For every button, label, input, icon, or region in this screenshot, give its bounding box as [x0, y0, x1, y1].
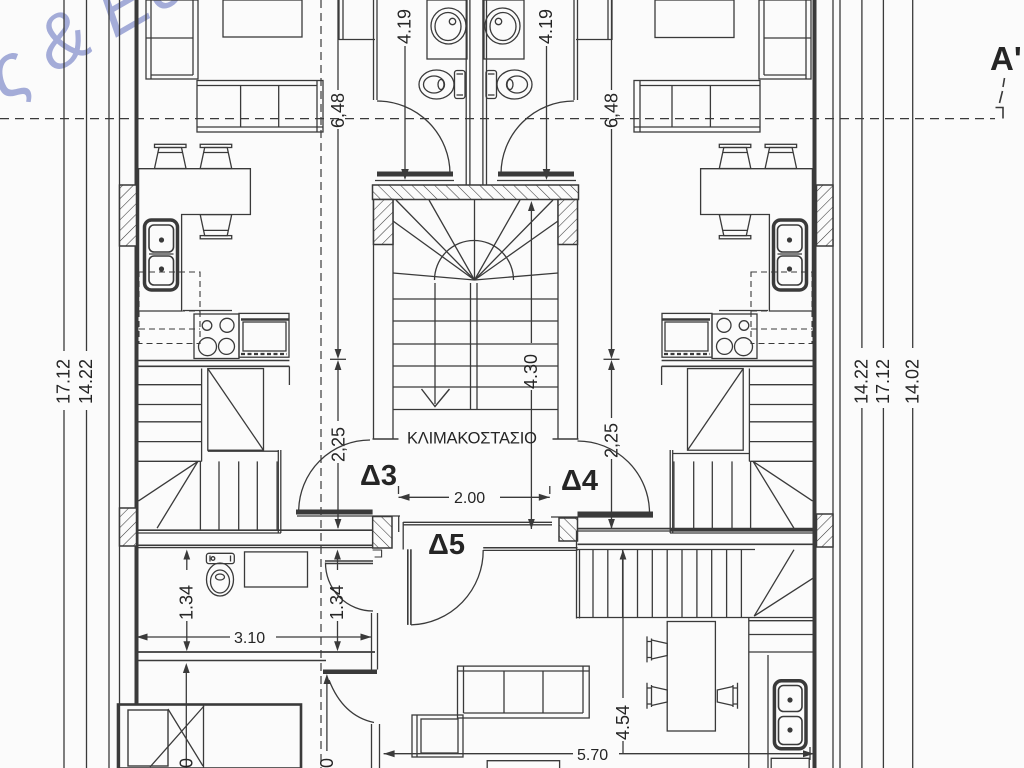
- right bathroom east wall: [573, 0, 575, 100]
- dim chain right 6.48 / 2.25: [611, 0, 613, 90]
- door Δ3 swing: [299, 440, 370, 511]
- core wall bottom edge left: [373, 438, 399, 440]
- svg-text:5.70: 5.70: [577, 747, 608, 764]
- bottom dining chair right: [717, 683, 737, 709]
- hall wall below right stair: [670, 529, 815, 531]
- right unit partition wall below kitchen: [662, 360, 815, 362]
- dim 4.54: [620, 550, 627, 560]
- left unit stair east wall: [277, 450, 279, 533]
- central party wall left pair: [465, 0, 467, 185]
- section line A-A dashed: [0, 118, 995, 120]
- stair winder fan: [393, 200, 558, 280]
- door Δ4 leaf: [578, 512, 654, 517]
- svg-text:14.02: 14.02: [902, 359, 922, 404]
- bedroom width dim with arrow: [185, 668, 187, 768]
- left unit internal stair upper flight: [138, 369, 202, 462]
- bottom kitchen sink: [774, 681, 806, 749]
- left toilet: [419, 70, 465, 99]
- svg-text:2.00: 2.00: [454, 490, 485, 507]
- svg-text:6,48: 6,48: [328, 93, 348, 128]
- svg-text:Δ4: Δ4: [561, 465, 598, 497]
- entry pier hatched right of D5: [559, 518, 578, 541]
- right unit stair winders: [753, 461, 812, 528]
- right bathroom sink counter: [484, 0, 524, 59]
- right unit stair landing edge: [673, 453, 750, 455]
- wall right of D5 door: [483, 547, 577, 549]
- left unit dining chair 3 (below table): [200, 215, 232, 239]
- D5 top wall: [403, 521, 552, 523]
- lower bathroom door leaf: [325, 560, 373, 562]
- D5 step detail: [373, 550, 382, 557]
- bottom kitchen counter piece: [771, 758, 809, 768]
- lower bathroom toilet: [206, 553, 234, 596]
- dashed reference line left apartment: [320, 0, 322, 768]
- right unit kitchen counter L: [701, 169, 813, 311]
- bottom sofa: [458, 666, 590, 718]
- right bathroom door swing: [501, 101, 574, 174]
- left unit dashed appliance under counter: [139, 272, 200, 344]
- right exterior wall outer lines: [832, 0, 834, 768]
- right bathroom sink: [485, 8, 520, 44]
- left duct closet top: [338, 0, 340, 40]
- stair direction line: [434, 283, 436, 404]
- wall below bedroom door: [371, 724, 373, 768]
- left unit stove: [183, 311, 239, 359]
- entry pier hatched left of D5: [373, 517, 392, 549]
- wall right of lower bathroom: [371, 613, 373, 652]
- bottom stair top wall thick: [578, 528, 815, 530]
- bedroom door dim arrow: [326, 679, 328, 751]
- right dim line 17.12: [882, 0, 884, 348]
- stair core top hatched wall: [373, 185, 579, 200]
- left unit sofa L horizontal section: [197, 81, 323, 133]
- svg-text:A': A': [990, 40, 1022, 77]
- left unit dining chair 1: [155, 144, 187, 168]
- svg-text:Δ5: Δ5: [428, 529, 465, 561]
- right unit internal stair upper flight: [749, 369, 813, 462]
- svg-text:6,48: 6,48: [602, 93, 622, 128]
- left bathroom door leaf: [377, 172, 453, 177]
- svg-text:2,25: 2,25: [602, 423, 622, 458]
- left bathroom west wall: [373, 0, 375, 100]
- stair down arrow: [422, 389, 450, 407]
- left bathroom sink: [431, 8, 466, 44]
- D5 door swing: [411, 550, 483, 625]
- dim 3.10: [137, 634, 148, 641]
- left unit partition wall below kitchen: [137, 360, 290, 362]
- hall wall below left stair: [137, 529, 373, 531]
- right dim line 14.02: [912, 0, 914, 348]
- left unit sofa L vertical section: [146, 0, 198, 79]
- D5 door leaf: [407, 549, 409, 625]
- left unit dining chair 2: [200, 144, 232, 168]
- left wall hatched pier upper: [120, 185, 137, 246]
- left dim line 14.22: [86, 0, 88, 351]
- left bathroom door swing: [377, 101, 450, 174]
- right unit dining chair 3 (below table): [719, 215, 751, 239]
- bedroom bed: [118, 705, 301, 768]
- dim 4.30: [530, 210, 532, 343]
- svg-text:14.22: 14.22: [76, 359, 96, 404]
- svg-text:4.19: 4.19: [536, 9, 556, 44]
- right unit dining chair 1: [719, 144, 751, 168]
- bedroom door swing: [329, 680, 374, 723]
- section marker squiggle: [1000, 78, 1005, 103]
- door Δ4 swing: [578, 441, 650, 513]
- central party wall right pair: [482, 0, 484, 185]
- D5 jamb wall left: [398, 516, 400, 532]
- right wall hatched pier upper: [817, 185, 834, 246]
- right duct closet top: [607, 0, 609, 40]
- bottom rug: [487, 761, 559, 768]
- left bathroom sink counter: [427, 0, 467, 59]
- dim 2.00: [398, 486, 400, 494]
- svg-text:4.19: 4.19: [395, 9, 415, 44]
- bottom stair treads: [577, 550, 815, 618]
- svg-text:4.54: 4.54: [613, 705, 633, 740]
- left exterior wall inner thick line: [135, 0, 139, 705]
- left unit kitchen sink: [145, 220, 178, 290]
- left unit stair winders: [139, 461, 198, 528]
- dim 1.34 right: [334, 550, 341, 560]
- left unit kitchen counter L: [139, 169, 251, 311]
- bottom dining chair top-left: [647, 636, 667, 662]
- svg-text:14.22: 14.22: [851, 359, 871, 404]
- svg-text:1.34: 1.34: [327, 585, 347, 620]
- left dim line 17.12: [63, 0, 65, 351]
- stair central divider: [470, 283, 472, 410]
- svg-text:0: 0: [317, 758, 337, 768]
- left unit stair void: [208, 369, 264, 451]
- right unit stair void: [688, 369, 744, 451]
- dim 5.70: [384, 750, 395, 757]
- svg-text:17.12: 17.12: [54, 359, 74, 404]
- right wall hatched pier lower: [817, 514, 834, 547]
- left exterior wall outer lines: [108, 0, 110, 768]
- dim 1.34 left: [183, 550, 190, 560]
- svg-text:17.12: 17.12: [873, 359, 893, 404]
- bottom dining chair bottom-left: [647, 683, 667, 709]
- dim chain left 6.48 / 2.25: [337, 0, 339, 90]
- right bathroom door leaf: [498, 172, 574, 177]
- core wall bottom edge right: [553, 438, 579, 440]
- bottom kitchen counter lines: [749, 618, 815, 768]
- right unit stove: [712, 311, 768, 359]
- watermark: [0, 0, 235, 116]
- bedroom north wall: [135, 651, 375, 653]
- stair core right wall: [557, 200, 559, 440]
- svg-text:4.30: 4.30: [521, 354, 541, 389]
- right dim line 14.22: [861, 0, 863, 348]
- left unit coffee table: [223, 0, 302, 37]
- right unit coffee table: [655, 0, 734, 38]
- lower bathroom shower: [245, 552, 308, 587]
- right unit stair west wall: [672, 450, 674, 533]
- svg-text:ΚΛΙΜΑΚΟΣΤΑΣΙΟ: ΚΛΙΜΑΚΟΣΤΑΣΙΟ: [407, 430, 537, 448]
- right toilet: [486, 70, 532, 99]
- left unit stair lower flight treads: [138, 461, 277, 530]
- right unit sofa L vertical section: [759, 0, 811, 79]
- lower bathroom door swing: [325, 563, 373, 612]
- right unit sofa L horizontal section: [634, 81, 760, 133]
- door Δ3 leaf: [296, 510, 373, 515]
- bottom armchair side table: [412, 715, 463, 757]
- left unit oven: [239, 313, 289, 357]
- right exterior wall inner thick line: [813, 0, 817, 768]
- right unit dashed appliance under counter: [751, 272, 812, 344]
- right unit stair lower flight treads: [674, 461, 813, 530]
- bottom stair winders: [754, 550, 813, 616]
- stair straight treads: [393, 299, 558, 410]
- svg-text:Δ3: Δ3: [360, 460, 397, 492]
- left unit stair landing edge: [208, 450, 278, 452]
- right unit oven: [662, 313, 712, 357]
- right unit dining chair 2: [765, 144, 797, 168]
- svg-text:3.10: 3.10: [234, 630, 265, 647]
- svg-text:1.34: 1.34: [177, 585, 197, 620]
- left wall hatched pier lower: [120, 508, 137, 546]
- svg-text:0: 0: [177, 758, 197, 768]
- bottom stair left wall: [576, 531, 578, 619]
- right unit kitchen sink: [774, 220, 807, 290]
- bottom dining table: [667, 622, 715, 732]
- stair core left wall: [373, 200, 375, 440]
